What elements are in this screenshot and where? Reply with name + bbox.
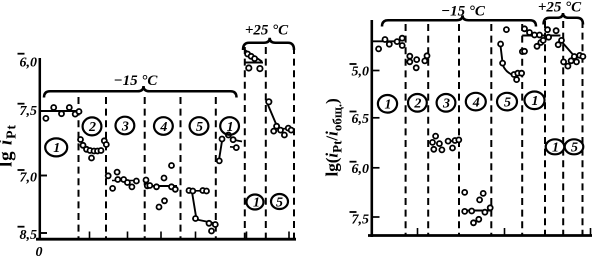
svg-text:3: 3: [442, 97, 450, 112]
svg-text:1: 1: [53, 141, 60, 156]
svg-text:1: 1: [227, 120, 234, 135]
svg-text:7,5: 7,5: [352, 212, 370, 227]
svg-text:7,5: 7,5: [20, 104, 38, 119]
svg-text:6,0: 6,0: [352, 162, 370, 177]
svg-text:8,5: 8,5: [20, 228, 38, 243]
svg-text:5: 5: [504, 95, 511, 110]
svg-text:6,5: 6,5: [352, 112, 370, 127]
svg-text:−15 °C: −15 °C: [114, 73, 159, 89]
svg-text:1: 1: [385, 98, 392, 113]
svg-text:2: 2: [413, 97, 421, 112]
svg-text:−15 °C: −15 °C: [441, 3, 486, 19]
svg-text:1: 1: [532, 94, 539, 109]
svg-text:lg iPt: lg iPt: [0, 124, 20, 167]
svg-text:5,0: 5,0: [352, 64, 370, 79]
svg-text:1: 1: [552, 140, 559, 155]
svg-text:4: 4: [472, 95, 480, 110]
svg-text:+25 °C: +25 °C: [538, 0, 582, 16]
svg-text:+25 °C: +25 °C: [245, 23, 289, 39]
svg-text:0: 0: [36, 245, 43, 256]
svg-text:3: 3: [121, 119, 129, 134]
svg-text:7,0: 7,0: [20, 170, 38, 185]
svg-text:6,0: 6,0: [20, 56, 38, 71]
svg-text:5: 5: [196, 120, 203, 135]
svg-text:1: 1: [253, 196, 260, 211]
svg-text:lg(iPt/iобщ.): lg(iPt/iобщ.): [323, 98, 345, 176]
svg-text:2: 2: [88, 120, 96, 135]
svg-text:5: 5: [571, 140, 578, 155]
svg-text:4: 4: [159, 120, 167, 135]
svg-text:5: 5: [276, 196, 283, 211]
